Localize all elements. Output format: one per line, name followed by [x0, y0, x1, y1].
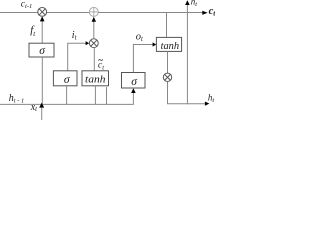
arrow into sigma3	[131, 88, 136, 93]
svg-text:tanh: tanh	[161, 40, 180, 52]
gate tanh1 box (candidate)	[82, 71, 109, 86]
wire tanh2 down to output-multiply	[167, 51, 169, 73]
arrow h_t bottom output	[205, 102, 210, 106]
wire sigma2 down to bus	[66, 86, 68, 105]
wire i_t from sigma2 up and right	[68, 43, 87, 71]
multiplier forget gate	[38, 7, 47, 16]
wire h_t vertical branch	[186, 5, 188, 105]
wire x_t input from below	[41, 107, 43, 120]
gate tanh2 box (output tanh)	[156, 37, 181, 51]
gate sigma1 box (forget)	[29, 43, 54, 57]
svg-text:tanh: tanh	[85, 74, 106, 86]
wire tanh1 down to bus	[94, 86, 96, 105]
multiplier input gate	[89, 39, 98, 48]
arrow into forget-multiply	[40, 16, 45, 21]
wire h_t-1 input bus	[0, 103, 134, 105]
adder cell-state plus	[89, 7, 98, 16]
gate sigma2 box (input)	[53, 71, 77, 86]
arrow x_t into bus	[39, 103, 44, 108]
wire stub down to bus	[106, 87, 108, 104]
multiplier output gate	[163, 73, 171, 81]
arrow into tanh2	[153, 42, 157, 46]
wire tanh1 up to input-multiply	[93, 48, 95, 71]
arrow into input-multiply	[86, 41, 90, 45]
wire sigma1 to forget-multiply	[41, 20, 43, 44]
svg-text:t: t	[102, 64, 104, 71]
gate sigma3 box (output)	[122, 73, 146, 89]
wire sigma1 down to input bus	[41, 57, 43, 104]
arrow c_t output	[202, 11, 207, 15]
arrow h_t top output	[185, 0, 190, 5]
wire c-state top line	[0, 12, 204, 14]
wire o_t from sigma3 up and right	[133, 45, 153, 73]
wire c branch down to tanh2	[166, 13, 168, 38]
wire input-multiply up to adder	[93, 21, 95, 39]
arrow into adder	[92, 17, 96, 22]
wire output-multiply down and right to h_t	[168, 82, 206, 104]
wire bus up to sigma3	[132, 92, 134, 105]
